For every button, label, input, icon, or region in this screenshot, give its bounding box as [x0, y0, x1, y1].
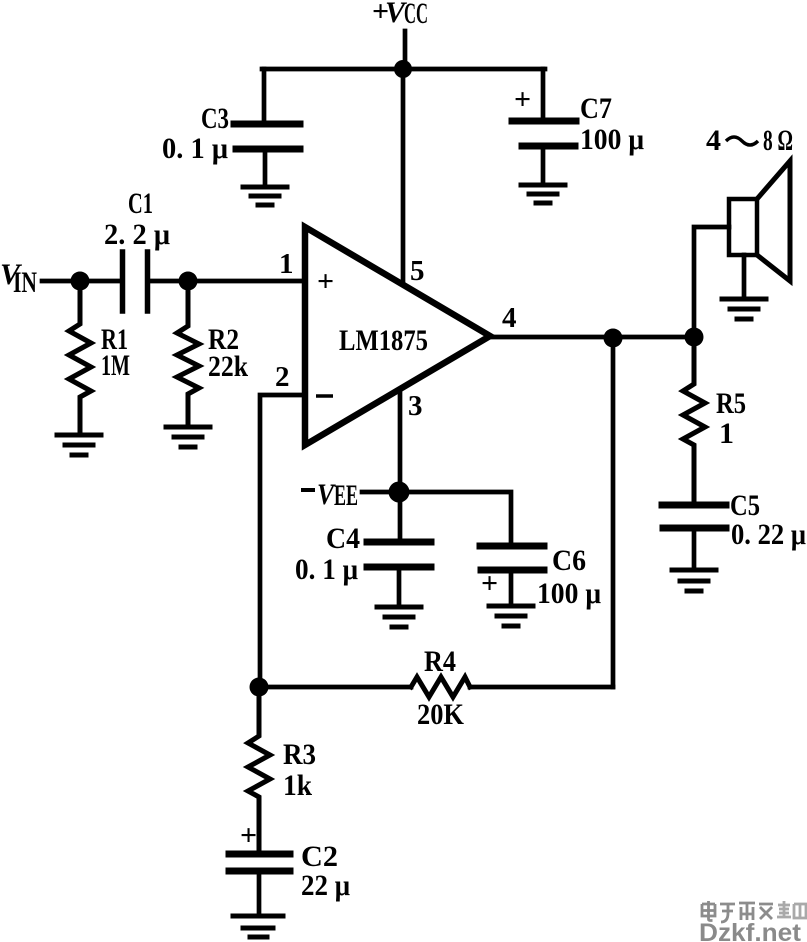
speaker cone	[757, 161, 790, 281]
resistor R2	[177, 281, 199, 426]
wire speaker branch	[694, 227, 729, 337]
capacitor C1	[123, 252, 148, 311]
svg-text:LM1875: LM1875	[339, 324, 428, 357]
svg-text:+: +	[240, 819, 257, 852]
svg-text:2. 2 μ: 2. 2 μ	[104, 218, 170, 251]
ground under C6	[489, 606, 533, 626]
svg-text:C3: C3	[201, 102, 229, 135]
wire feedback down	[611, 338, 616, 687]
ground under R1	[57, 435, 101, 455]
wire C3 to ground	[263, 152, 268, 186]
svg-text:R5: R5	[716, 387, 746, 420]
wire VEE label lead	[362, 490, 399, 495]
node input	[71, 272, 90, 291]
svg-text:CC: CC	[404, 0, 428, 30]
label op-amp minus	[316, 394, 333, 398]
wire pin5 supply	[401, 69, 406, 281]
svg-text:22 μ: 22 μ	[301, 869, 350, 902]
svg-text:8 Ω: 8 Ω	[763, 124, 793, 157]
wire +Vcc stub	[403, 31, 408, 69]
ground under C2	[233, 916, 283, 937]
svg-text:C7: C7	[580, 92, 612, 125]
node after C1	[179, 272, 198, 291]
svg-text:0. 1 μ: 0. 1 μ	[295, 553, 358, 586]
wire C5 to ground	[692, 531, 697, 569]
wire output pin4	[490, 335, 695, 340]
svg-text:5: 5	[410, 255, 425, 287]
svg-text:1: 1	[719, 417, 734, 450]
wire input to pin1	[42, 279, 122, 284]
node R3 junction	[250, 678, 269, 697]
capacitor C3	[234, 124, 300, 149]
wire pin3 down	[398, 390, 403, 541]
wire C3 drop	[262, 69, 267, 123]
resistor R1	[69, 281, 91, 434]
node output	[685, 328, 704, 347]
node feedback branch	[604, 329, 623, 348]
svg-text:+: +	[317, 265, 334, 298]
wire C7 drop	[541, 69, 546, 120]
svg-text:+: +	[514, 83, 531, 116]
label -Vee	[301, 488, 315, 492]
svg-text:4: 4	[706, 124, 721, 157]
speaker magnet	[729, 199, 757, 255]
ground under C7	[521, 185, 565, 203]
svg-text:20K: 20K	[417, 698, 465, 731]
wire speaker to ground	[742, 255, 747, 298]
svg-text:+: +	[481, 567, 498, 600]
op-amp U1 LM1875	[305, 227, 490, 445]
wire C7 to ground	[541, 149, 546, 184]
wire pin2 input	[260, 395, 305, 687]
capacitor C4	[367, 542, 431, 567]
svg-text:C4: C4	[326, 522, 360, 555]
capacitor C5	[662, 505, 726, 528]
svg-text:Dzkf.net: Dzkf.net	[699, 919, 802, 942]
svg-text:1: 1	[279, 248, 294, 280]
svg-text:C1: C1	[128, 187, 153, 220]
svg-text:3: 3	[408, 390, 423, 422]
resistor R4	[411, 677, 470, 697]
svg-text:R3: R3	[283, 738, 316, 771]
ground under C3	[243, 187, 287, 205]
ground under C4	[377, 607, 421, 627]
wire top rail	[262, 67, 545, 72]
capacitor C6	[480, 546, 544, 570]
svg-text:1k: 1k	[283, 769, 312, 802]
svg-text:2: 2	[275, 361, 290, 393]
wire VEE to C6	[399, 492, 511, 545]
svg-text:0. 1 μ: 0. 1 μ	[162, 132, 228, 165]
ground under speaker	[722, 299, 766, 319]
wire C2 to ground	[257, 874, 262, 914]
node VCC junction	[394, 60, 412, 78]
capacitor C7	[512, 121, 576, 146]
watermark site name	[702, 901, 774, 922]
svg-text:R4: R4	[424, 645, 456, 678]
capacitor C2	[229, 854, 290, 871]
ground under R2	[166, 427, 210, 447]
svg-text:1M: 1M	[101, 349, 130, 382]
svg-text:EE: EE	[334, 479, 358, 512]
ground under C5	[672, 570, 716, 591]
node VEE junction	[389, 482, 410, 503]
svg-text:4: 4	[502, 302, 517, 334]
resistor R5	[683, 337, 705, 504]
wire R4 row	[260, 685, 411, 690]
wire C6 to ground	[509, 573, 514, 605]
svg-text:IN: IN	[13, 266, 37, 299]
svg-text:100 μ: 100 μ	[580, 123, 644, 156]
svg-text:22k: 22k	[208, 350, 248, 383]
resistor R3	[248, 687, 270, 853]
wire C4 to ground	[397, 570, 402, 606]
svg-text:100 μ: 100 μ	[537, 577, 601, 610]
svg-text:C6: C6	[552, 544, 586, 577]
svg-text:0. 22 μ: 0. 22 μ	[731, 518, 806, 551]
